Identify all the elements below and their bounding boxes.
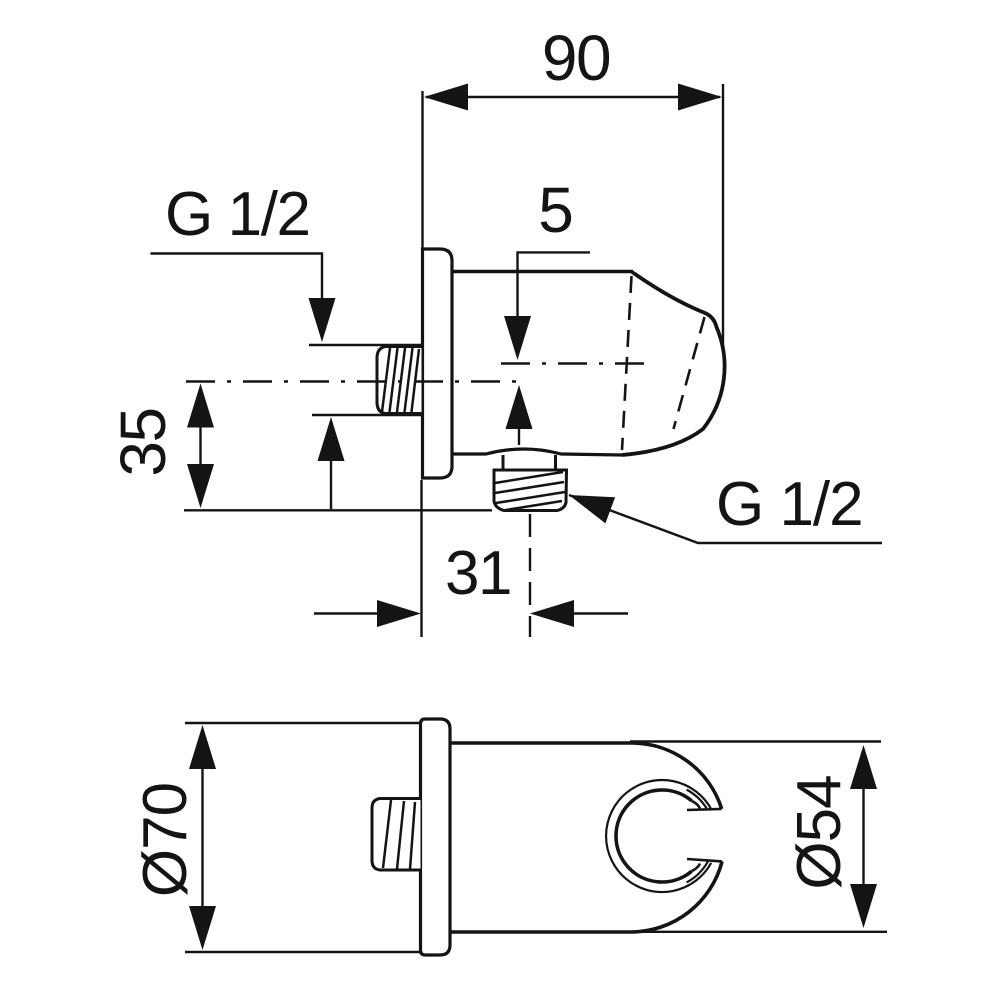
arrow up to nipple bottom	[318, 417, 345, 461]
leader G 1/2 bottom arrowhead	[569, 495, 615, 523]
holder notch upper	[687, 809, 722, 810]
outlet centerline dashed	[529, 514, 531, 637]
holder body plan outline upper	[450, 743, 722, 809]
centerline upper axis	[501, 362, 650, 365]
body top line side view	[452, 270, 633, 273]
leader G 1/2 bottom	[569, 495, 882, 543]
cup rim hidden dashed line	[622, 276, 632, 450]
svg-text:90: 90	[542, 22, 610, 94]
dimension D70 arrowhead down	[189, 906, 216, 950]
dimension 31 arrowhead right	[530, 600, 574, 627]
wall flange side view	[423, 249, 453, 478]
dimension 35 arrowhead down	[187, 464, 214, 508]
holder C claw tip upper	[692, 801, 700, 809]
dimension 31 line right	[573, 612, 628, 614]
dimension 90 line	[426, 96, 720, 98]
holder C ring bold arc	[616, 790, 692, 882]
dimension 35 line	[199, 427, 201, 465]
holder claw inner arc lower	[687, 862, 708, 883]
dimension D54 extension top	[630, 740, 881, 742]
wall flange plan view	[421, 719, 451, 955]
inlet nipple plan thread hatch	[383, 800, 391, 868]
dimension 90 extension line left	[421, 91, 423, 250]
svg-text:31: 31	[445, 539, 511, 608]
pointer line nipple top	[309, 344, 421, 346]
pointer line nipple bottom	[312, 414, 421, 416]
svg-text:G 1/2: G 1/2	[716, 470, 863, 539]
dimension 31 line left	[314, 612, 378, 614]
cup inner hidden dashed line	[674, 317, 705, 429]
reference line bottom of thread	[184, 509, 492, 511]
dimension 5 pointer line	[518, 252, 591, 318]
svg-text:G 1/2: G 1/2	[165, 180, 310, 249]
leader G 1/2 top arrowhead	[309, 298, 336, 342]
dimension 35 arrowhead up	[187, 384, 214, 428]
svg-text:Ø54: Ø54	[785, 775, 854, 889]
inlet nipple thread hatch	[382, 348, 390, 412]
svg-text:5: 5	[538, 174, 574, 246]
holder middle thin circle	[606, 780, 711, 892]
inlet nipple side view	[377, 347, 422, 414]
dimension 5 arrowhead up	[506, 385, 533, 429]
plan view dimension D70 extension top	[185, 722, 421, 724]
dimension 31 extension line	[420, 480, 422, 637]
outlet thread side view	[494, 470, 567, 511]
holder notch lower	[687, 859, 722, 861]
centerline lower axis	[186, 380, 526, 383]
dimension 31 arrowhead left	[377, 600, 421, 627]
dimension D54 arrowhead down	[850, 884, 877, 928]
dimension D54 arrowhead up	[850, 745, 877, 789]
holder body plan outline lower	[450, 861, 722, 932]
holder C claw tip lower	[692, 864, 700, 872]
dimension D70 line	[201, 769, 203, 906]
arrow up to nipple bottom tail	[330, 461, 332, 509]
dimension 5 arrow tail	[518, 429, 520, 445]
svg-text:35: 35	[107, 408, 179, 476]
svg-text:Ø70: Ø70	[131, 783, 200, 897]
dimension 90 arrowhead left	[424, 84, 468, 111]
outlet collar side view	[502, 455, 505, 470]
leader G 1/2 top underline	[151, 254, 323, 301]
inlet nipple plan view	[372, 799, 421, 871]
body bottom line side view	[452, 449, 622, 455]
dimension D54 line	[862, 789, 864, 884]
outlet thread hatch	[495, 472, 563, 483]
body dome outline side view	[622, 272, 725, 455]
dimension 90 extension line right	[722, 84, 724, 347]
dimension D54 extension bottom	[630, 931, 887, 933]
holder claw inner arc upper	[687, 790, 707, 809]
plan view dimension D70 extension bottom	[185, 951, 430, 953]
dimension D70 arrowhead up	[189, 725, 216, 769]
dimension 90 arrowhead right	[678, 84, 722, 111]
dimension 5 arrowhead down	[504, 316, 531, 360]
